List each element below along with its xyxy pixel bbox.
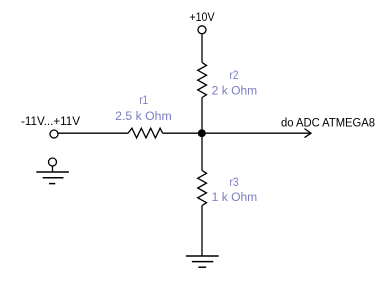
- svg-text:r1: r1: [139, 95, 148, 107]
- wire r2 to node: [201, 98, 203, 134]
- svg-text:2.5 k Ohm: 2.5 k Ohm: [115, 111, 172, 123]
- resistor r1: [128, 128, 163, 138]
- ground bottom: [186, 256, 219, 267]
- wire node to arrow: [202, 132, 310, 134]
- wire node to r3: [201, 133, 203, 170]
- wire r1 to node: [163, 132, 202, 134]
- resistor r3: [198, 170, 207, 205]
- terminal +10V: [198, 26, 206, 34]
- svg-text:-11V...+11V: -11V...+11V: [21, 116, 80, 128]
- resistor r2: [198, 62, 207, 97]
- wire +10V to r2: [201, 34, 203, 63]
- svg-text:r2: r2: [230, 70, 239, 82]
- svg-text:1 k Ohm: 1 k Ohm: [212, 192, 258, 204]
- wire terminal to ground left: [52, 166, 54, 172]
- ground left: [36, 172, 69, 184]
- svg-text:2 k Ohm: 2 k Ohm: [212, 86, 258, 98]
- svg-text:+10V: +10V: [190, 12, 215, 24]
- svg-text:do ADC ATMEGA8: do ADC ATMEGA8: [281, 117, 375, 129]
- node junction: [198, 129, 206, 137]
- svg-text:r3: r3: [230, 177, 239, 189]
- terminal ground left: [49, 158, 57, 166]
- wire input to r1: [58, 132, 128, 134]
- wire r3 to ground: [201, 206, 203, 256]
- arrowhead output: [305, 129, 312, 138]
- terminal input: [50, 130, 58, 138]
